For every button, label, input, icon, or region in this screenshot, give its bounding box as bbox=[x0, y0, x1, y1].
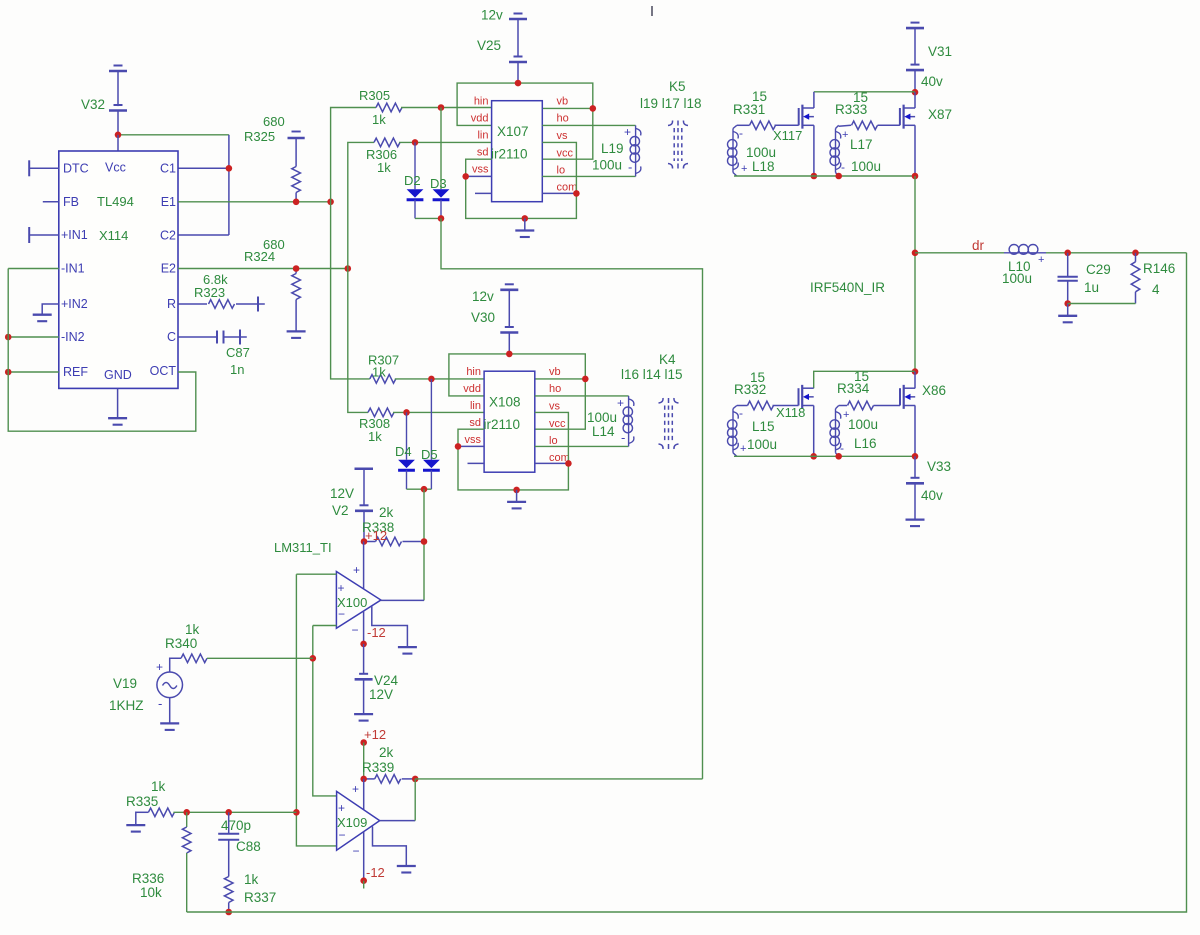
wire E1 bbox=[178, 201, 331, 203]
node L16 bottom bbox=[835, 453, 842, 460]
capacitor C88 470p bbox=[228, 812, 230, 833]
inductor L15 100u bbox=[733, 406, 737, 409]
svg-text:R334: R334 bbox=[837, 381, 870, 396]
svg-text:V24: V24 bbox=[374, 673, 399, 688]
svg-text:2k: 2k bbox=[379, 745, 394, 760]
diode D3 bbox=[440, 108, 442, 190]
svg-text:L14: L14 bbox=[592, 424, 615, 439]
wire D2-D3 cathode join bbox=[415, 217, 441, 219]
terminal DTC pin bbox=[28, 160, 30, 176]
stub FB pin bbox=[43, 201, 59, 203]
wire +12 to R339 bbox=[363, 743, 365, 779]
node lin-D4 bbox=[403, 409, 410, 416]
wire C29 gnd bbox=[1067, 304, 1069, 316]
resistor R324 680 bbox=[295, 269, 297, 274]
svg-text:-: - bbox=[621, 430, 625, 445]
svg-text:E2: E2 bbox=[161, 262, 176, 276]
resistor R146 4 bbox=[1132, 250, 1139, 257]
diode D5 bbox=[430, 379, 432, 460]
svg-text:C88: C88 bbox=[236, 839, 261, 854]
wire main rail to output bbox=[914, 176, 916, 372]
svg-text:100u: 100u bbox=[592, 158, 622, 173]
svg-text:40v: 40v bbox=[921, 74, 943, 89]
battery V30 12v bbox=[505, 283, 514, 285]
node -IN2 bbox=[5, 334, 12, 341]
svg-text:100u: 100u bbox=[848, 417, 878, 432]
node E1 junction bbox=[327, 199, 334, 206]
node com bbox=[573, 190, 580, 197]
node C29 bottom bbox=[1064, 300, 1071, 307]
wire X100 output bbox=[381, 599, 424, 601]
wire X109 output loop to X108 diodes bbox=[415, 778, 702, 780]
resistor R331 15 bbox=[737, 124, 750, 126]
wire X108 sd/vss gnd box bbox=[458, 412, 568, 490]
wire D4-D5 cathode join bbox=[407, 488, 432, 490]
svg-text:K4: K4 bbox=[659, 352, 676, 367]
svg-text:l19 l17 l18: l19 l17 l18 bbox=[640, 96, 702, 111]
svg-text:R339: R339 bbox=[362, 760, 394, 775]
capacitor C29 1u bbox=[1067, 253, 1069, 277]
wire bottom feedback loop bbox=[187, 253, 1187, 912]
wire X100 gnd pin bbox=[372, 606, 408, 647]
svg-text:L16: L16 bbox=[854, 436, 877, 451]
wire -IN1 feedback bbox=[8, 268, 59, 270]
svg-text:IRF540N_IR: IRF540N_IR bbox=[810, 280, 885, 295]
svg-text:L19: L19 bbox=[601, 141, 624, 156]
svg-text:R146: R146 bbox=[1143, 261, 1175, 276]
node V25 tap bbox=[515, 80, 522, 87]
resistor R336 10k bbox=[186, 812, 188, 827]
svg-text:100u: 100u bbox=[747, 437, 777, 452]
svg-text:lo: lo bbox=[549, 435, 558, 447]
svg-text:680: 680 bbox=[263, 114, 285, 129]
node 40v rail bbox=[912, 89, 919, 96]
node R324-E2 bbox=[293, 265, 300, 272]
svg-text:D4: D4 bbox=[395, 444, 412, 459]
inductor L19 100u bbox=[635, 125, 637, 176]
svg-text:V19: V19 bbox=[113, 676, 137, 691]
op-amp X100 LM311 bbox=[336, 572, 381, 629]
svg-text:L17: L17 bbox=[850, 137, 873, 152]
transformer K5 bbox=[673, 128, 675, 161]
node X86 source bbox=[912, 453, 919, 460]
svg-text:FB: FB bbox=[63, 195, 79, 209]
svg-text:R337: R337 bbox=[244, 890, 276, 905]
svg-text:−: − bbox=[339, 828, 346, 842]
wire X86 drain bbox=[914, 372, 916, 389]
svg-text:-12: -12 bbox=[367, 625, 386, 640]
svg-text:GND: GND bbox=[104, 368, 132, 382]
svg-text:V30: V30 bbox=[471, 310, 495, 325]
svg-text:ho: ho bbox=[557, 113, 569, 125]
wire X109 output bbox=[380, 820, 416, 822]
battery V25 12v bbox=[514, 13, 523, 15]
svg-text:R332: R332 bbox=[734, 382, 766, 397]
svg-text:V33: V33 bbox=[927, 459, 951, 474]
svg-text:+: + bbox=[740, 443, 746, 455]
svg-text:L15: L15 bbox=[752, 419, 775, 434]
battery V31 40v bbox=[911, 22, 920, 24]
node vb bbox=[590, 105, 597, 112]
wire E2 bbox=[178, 268, 348, 270]
resistor R334 15 bbox=[839, 405, 847, 407]
svg-text:vss: vss bbox=[472, 164, 489, 176]
svg-text:R336: R336 bbox=[132, 871, 164, 886]
tick mark top bbox=[651, 6, 653, 16]
svg-text:vcc: vcc bbox=[549, 418, 566, 430]
svg-text:vcc: vcc bbox=[557, 148, 574, 160]
mosfet X117 IRF540N bbox=[798, 108, 800, 125]
wire ho to L14 bbox=[535, 395, 629, 397]
wire drain rail top bbox=[814, 91, 915, 93]
node D4-D5 join bbox=[421, 486, 428, 493]
inductor L16 100u bbox=[836, 406, 839, 409]
wire X108 gnd stub bbox=[516, 490, 518, 502]
svg-text:R333: R333 bbox=[835, 102, 867, 117]
svg-text:Vcc: Vcc bbox=[105, 161, 126, 175]
IC U2 IR2110 X107 body bbox=[492, 101, 543, 202]
ground X108 bbox=[507, 501, 526, 503]
wire X87 drain bbox=[914, 92, 916, 108]
svg-text:12V: 12V bbox=[369, 687, 393, 702]
node X118 source bbox=[810, 453, 817, 460]
svg-text:−: − bbox=[352, 623, 359, 637]
svg-text:vs: vs bbox=[549, 401, 561, 413]
ground X100 bbox=[398, 646, 417, 648]
op-amp X109 LM311 bbox=[337, 791, 380, 850]
svg-text:X87: X87 bbox=[928, 107, 952, 122]
svg-text:E1: E1 bbox=[161, 195, 176, 209]
svg-text:+: + bbox=[352, 782, 359, 796]
svg-text:1k: 1k bbox=[372, 112, 386, 127]
wire X107 supply box bbox=[457, 83, 593, 159]
svg-text:sd: sd bbox=[469, 417, 481, 429]
wire lo to L14 bbox=[535, 445, 629, 447]
svg-text:lin: lin bbox=[470, 400, 481, 412]
battery V2 12V bbox=[355, 468, 374, 471]
wire E1 net vertical to R305 and R307 bbox=[331, 108, 376, 379]
node com X108 bbox=[565, 460, 572, 467]
battery V32 bbox=[117, 71, 119, 106]
wire L10 to loads bbox=[1046, 252, 1187, 254]
node Vcc junction bbox=[115, 132, 122, 139]
wire vb bbox=[542, 107, 593, 109]
inductor L10 100u bbox=[1004, 252, 1046, 254]
svg-text:vb: vb bbox=[549, 366, 561, 378]
mosfet X86 IRF540N bbox=[899, 388, 901, 405]
wire source rail lower bbox=[734, 455, 915, 457]
terminal +IN1 pin bbox=[28, 227, 30, 243]
node X107 gnd tap bbox=[522, 215, 529, 222]
svg-text:+: + bbox=[353, 563, 360, 577]
wire X118 drain link bbox=[814, 371, 915, 388]
ground V19 bbox=[160, 722, 179, 724]
svg-text:-: - bbox=[841, 160, 845, 174]
wire ho to L19 bbox=[542, 124, 635, 126]
svg-text:X107: X107 bbox=[497, 124, 529, 139]
resistor R337 1k bbox=[224, 877, 233, 903]
node R325-E1 bbox=[293, 199, 300, 206]
wire to X100 output bbox=[423, 489, 425, 600]
ground below R324 bbox=[287, 330, 306, 332]
svg-text:X86: X86 bbox=[922, 383, 946, 398]
svg-text:1k: 1k bbox=[368, 429, 382, 444]
svg-text:470p: 470p bbox=[221, 818, 251, 833]
wire com stub bbox=[542, 192, 576, 194]
resistor R340 1k bbox=[181, 654, 207, 663]
resistor R305 1k bbox=[376, 103, 402, 112]
svg-text:-: - bbox=[739, 406, 743, 420]
node -12 X100 bbox=[360, 641, 367, 648]
svg-text:l16 l14 l15: l16 l14 l15 bbox=[621, 367, 683, 382]
node E2 junction bbox=[345, 265, 352, 272]
svg-text:D5: D5 bbox=[421, 447, 438, 462]
svg-text:V2: V2 bbox=[332, 503, 349, 518]
wire REF feedback bbox=[8, 371, 59, 373]
wire X107 gnd stub bbox=[524, 218, 526, 230]
ground V33 bbox=[906, 518, 925, 520]
svg-text:100u: 100u bbox=[1002, 271, 1032, 286]
svg-text:TL494: TL494 bbox=[97, 194, 134, 209]
svg-text:+12: +12 bbox=[364, 727, 386, 742]
node X86 drain bbox=[912, 368, 919, 375]
svg-text:vs: vs bbox=[557, 130, 569, 142]
node R335 net bbox=[293, 809, 300, 816]
wire GND pin bbox=[117, 388, 119, 418]
wire X87 source bbox=[914, 125, 916, 176]
ground R335 bbox=[126, 824, 145, 826]
wire C2 pin bbox=[178, 234, 229, 236]
node hin-D5 bbox=[428, 376, 435, 383]
node R336 top bbox=[183, 809, 190, 816]
wire X117 source bbox=[813, 125, 815, 176]
mosfet X87 IRF540N bbox=[899, 108, 901, 125]
ground V24 bbox=[354, 713, 373, 715]
svg-text:+IN1: +IN1 bbox=[61, 228, 88, 242]
svg-text:C2: C2 bbox=[160, 229, 176, 243]
svg-text:V32: V32 bbox=[81, 97, 105, 112]
svg-text:+: + bbox=[617, 396, 624, 410]
svg-text:C: C bbox=[167, 330, 176, 344]
svg-text:V31: V31 bbox=[928, 44, 952, 59]
svg-text:X114: X114 bbox=[99, 228, 128, 243]
svg-text:12V: 12V bbox=[330, 486, 354, 501]
wire X108 supply box bbox=[449, 354, 585, 429]
svg-text:vdd: vdd bbox=[471, 113, 489, 125]
svg-text:12v: 12v bbox=[472, 289, 494, 304]
svg-text:X118: X118 bbox=[776, 405, 805, 420]
wire X100 + input bbox=[296, 573, 336, 575]
svg-text:1KHZ: 1KHZ bbox=[109, 698, 144, 713]
svg-text:−: − bbox=[338, 607, 345, 621]
svg-text:-IN1: -IN1 bbox=[61, 262, 85, 276]
svg-text:sd: sd bbox=[477, 147, 489, 159]
svg-text:+12: +12 bbox=[365, 528, 387, 543]
wire Vcc rail from V32 to C1/C2 bridge bbox=[118, 134, 229, 136]
ground C29 bbox=[1058, 315, 1077, 317]
wire X109 output up bbox=[414, 779, 416, 821]
svg-text:+: + bbox=[1038, 254, 1044, 266]
resistor R335 1k bbox=[135, 812, 138, 825]
mosfet X118 IRF540N bbox=[798, 388, 800, 405]
ground X107 bbox=[515, 229, 534, 231]
svg-text:C29: C29 bbox=[1086, 262, 1111, 277]
node R337 bottom bbox=[225, 909, 232, 916]
svg-text:vss: vss bbox=[465, 434, 482, 446]
ground X109 bbox=[397, 865, 416, 867]
wire X100 - input bbox=[313, 625, 337, 627]
svg-text:1k: 1k bbox=[377, 160, 391, 175]
svg-text:LM311_TI: LM311_TI bbox=[274, 540, 332, 555]
resistor R308 1k bbox=[368, 408, 394, 417]
wire X107 sd/vss gnd box bbox=[466, 142, 577, 218]
diode D2 bbox=[414, 142, 416, 189]
svg-text:10k: 10k bbox=[140, 885, 162, 900]
svg-text:D2: D2 bbox=[404, 173, 421, 188]
svg-text:C1: C1 bbox=[160, 162, 176, 176]
svg-text:ir2110: ir2110 bbox=[484, 417, 521, 432]
svg-text:12v: 12v bbox=[481, 8, 503, 23]
IC U1 TL494 X114 body bbox=[59, 151, 178, 388]
wire E2 net vertical to R306 and R308 bbox=[348, 142, 374, 412]
node hin-D3 bbox=[438, 104, 445, 111]
node R339 left bbox=[360, 776, 367, 783]
node R339 right bbox=[412, 776, 419, 783]
net line X100- to X109+ bbox=[313, 626, 337, 796]
node L17 bottom bbox=[835, 173, 842, 180]
svg-text:K5: K5 bbox=[669, 79, 686, 94]
svg-text:4: 4 bbox=[1152, 282, 1160, 297]
svg-text:-: - bbox=[158, 696, 162, 711]
svg-text:R331: R331 bbox=[733, 102, 765, 117]
svg-text:L18: L18 bbox=[752, 159, 775, 174]
svg-text:100u: 100u bbox=[587, 410, 617, 425]
svg-text:+IN2: +IN2 bbox=[61, 297, 88, 311]
wire X86 source bbox=[914, 406, 916, 457]
wire X109 V- pin bbox=[363, 832, 365, 881]
wire vb X108 bbox=[535, 378, 586, 380]
svg-text:-: - bbox=[840, 441, 844, 455]
node X117 source bbox=[811, 173, 818, 180]
transformer K4 bbox=[664, 406, 666, 442]
svg-text:-12: -12 bbox=[366, 865, 385, 880]
node C88 top bbox=[225, 809, 232, 816]
node diode join bbox=[438, 215, 445, 222]
wire Vcc pin bbox=[117, 135, 119, 151]
svg-text:1k: 1k bbox=[185, 622, 200, 637]
node R340 net bbox=[310, 655, 317, 662]
svg-text:R325: R325 bbox=[244, 129, 275, 144]
wire source rail upper bbox=[734, 175, 915, 177]
node vb X108 bbox=[582, 376, 589, 383]
svg-text:+: + bbox=[338, 801, 345, 815]
svg-text:1k: 1k bbox=[372, 365, 386, 380]
diode D4 bbox=[406, 412, 408, 459]
wire X117 drain riser bbox=[813, 92, 815, 108]
stub X108 pin6 bbox=[468, 462, 485, 464]
wire X109 gnd pin bbox=[373, 827, 407, 867]
svg-text:ho: ho bbox=[549, 383, 561, 395]
svg-text:DTC: DTC bbox=[63, 162, 89, 176]
ground at +IN2 bbox=[33, 314, 52, 316]
wire X109 V+ pin bbox=[363, 779, 365, 810]
svg-text:1u: 1u bbox=[1084, 280, 1099, 295]
svg-text:hin: hin bbox=[466, 366, 481, 378]
wire V19 bottom bbox=[169, 698, 171, 724]
svg-text:−: − bbox=[353, 844, 360, 858]
ground at TL494 GND bbox=[108, 417, 127, 419]
svg-text:REF: REF bbox=[63, 365, 88, 379]
stub below -12 bbox=[363, 881, 365, 889]
svg-text:2k: 2k bbox=[379, 505, 394, 520]
inductor L14 100u bbox=[628, 396, 630, 447]
svg-text:100u: 100u bbox=[746, 145, 776, 160]
svg-text:vdd: vdd bbox=[463, 383, 481, 395]
resistor R323 6.8k bbox=[178, 303, 207, 305]
svg-text:R335: R335 bbox=[126, 794, 158, 809]
svg-text:+: + bbox=[156, 660, 163, 674]
wire +IN2 to ground bbox=[42, 304, 59, 315]
node vss bbox=[462, 173, 469, 180]
svg-text:X108: X108 bbox=[489, 395, 521, 410]
wire OCT feedback loop bbox=[8, 269, 196, 432]
resistor R338 2k bbox=[364, 541, 376, 543]
node X108 gnd tap bbox=[513, 487, 520, 494]
svg-text:R323: R323 bbox=[194, 285, 225, 300]
svg-text:+: + bbox=[624, 125, 631, 139]
node output tap bbox=[912, 250, 919, 257]
svg-text:1k: 1k bbox=[244, 872, 259, 887]
svg-text:ir2110: ir2110 bbox=[491, 147, 528, 162]
source V19 1KHZ bbox=[157, 672, 183, 698]
svg-text:1n: 1n bbox=[230, 362, 244, 377]
svg-text:vb: vb bbox=[557, 96, 569, 108]
wire lo to L19 bbox=[542, 175, 635, 177]
svg-text:R: R bbox=[167, 297, 176, 311]
wire comparator X100 net riser bbox=[441, 218, 703, 779]
node C29 top bbox=[1064, 250, 1071, 257]
wire com stub X108 bbox=[535, 462, 569, 464]
svg-text:D3: D3 bbox=[430, 176, 447, 191]
node X87 source bbox=[912, 173, 919, 180]
svg-text:lin: lin bbox=[477, 130, 488, 142]
node vss X108 bbox=[455, 443, 462, 450]
inductor L17 100u bbox=[836, 125, 839, 128]
net line X100+ to X109- bbox=[296, 574, 336, 846]
svg-text:R305: R305 bbox=[359, 88, 390, 103]
stub X107 pin6 bbox=[475, 192, 492, 194]
node -12 X109 bbox=[360, 877, 367, 884]
svg-text:1k: 1k bbox=[151, 779, 166, 794]
battery V24 12V bbox=[363, 644, 365, 674]
resistor R306 1k bbox=[374, 138, 400, 147]
wire R146 bottom to C29 bottom bbox=[1068, 303, 1136, 305]
node +12 tap X109 bbox=[360, 739, 367, 746]
svg-text:+: + bbox=[338, 581, 345, 595]
wire vss stub X108 bbox=[458, 445, 484, 447]
wire -IN2 feedback bbox=[8, 336, 59, 338]
svg-text:-: - bbox=[739, 126, 743, 140]
capacitor C87 1n bbox=[178, 336, 217, 338]
IC U3 IR2110 X108 body bbox=[484, 371, 535, 472]
wire C1 pin bbox=[178, 167, 229, 169]
svg-text:hin: hin bbox=[474, 96, 489, 108]
svg-text:100u: 100u bbox=[851, 159, 881, 174]
resistor R307 1k bbox=[370, 375, 396, 384]
inductor L18 100u bbox=[733, 125, 737, 128]
svg-text:+: + bbox=[741, 163, 747, 175]
wire output to L10 bbox=[915, 252, 1004, 254]
